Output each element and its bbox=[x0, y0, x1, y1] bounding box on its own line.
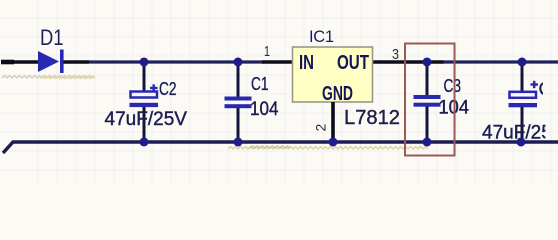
pin 1 of IC1 bbox=[262, 60, 293, 64]
wire C1 bottom stub bbox=[237, 107, 240, 142]
node junction GND pin bottom bbox=[329, 138, 338, 147]
wire input net at far left bbox=[1, 60, 14, 65]
wire C4 top stub bbox=[521, 62, 524, 92]
wire C3 bottom stub bbox=[426, 106, 429, 142]
wire / pin black segment from left edge to diode anode bbox=[2, 60, 39, 64]
svg-text:47uF/25V: 47uF/25V bbox=[105, 109, 188, 130]
node junction C2 top bbox=[140, 58, 149, 67]
value 47uF/25V (clipped at right edge) bbox=[482, 123, 558, 144]
wire top rail net from IC1 pin 3 to right edge bbox=[443, 60, 558, 63]
ERC squiggle under bottom rail bbox=[228, 146, 428, 149]
highlight box around C3 bbox=[405, 44, 455, 156]
node junction C4 top bbox=[518, 58, 527, 67]
capacitor C4 (polarized 47uF output) bbox=[509, 62, 539, 142]
svg-text:3: 3 bbox=[392, 46, 399, 63]
wire diode cathode pin to joint bbox=[62, 60, 89, 64]
wire C3 top stub bbox=[426, 62, 429, 96]
wire C1 top stub bbox=[237, 62, 240, 97]
regulator IC1 L7812 body bbox=[293, 47, 373, 105]
wire bottom rail (ground return, full width) bbox=[3, 142, 558, 153]
svg-text:1: 1 bbox=[264, 43, 270, 60]
svg-text:D1: D1 bbox=[40, 25, 64, 50]
svg-text:C1: C1 bbox=[251, 73, 269, 94]
svg-text:104: 104 bbox=[250, 99, 279, 120]
node junction C3 top bbox=[423, 58, 432, 67]
capacitor C2 (polarized 47uF/25V) bbox=[130, 62, 159, 142]
svg-text:2: 2 bbox=[313, 124, 329, 132]
capacitor C3 (ceramic 104) bbox=[414, 62, 441, 142]
svg-text:GND: GND bbox=[322, 82, 353, 105]
diode D1 bbox=[38, 50, 64, 74]
pin 3 of IC1 bbox=[372, 60, 444, 64]
svg-text:C3: C3 bbox=[444, 75, 462, 96]
svg-text:IC1: IC1 bbox=[309, 28, 334, 46]
node junction C1 top bbox=[234, 58, 243, 67]
designator C4 (clipped at screenshot edge) bbox=[539, 78, 558, 99]
wire C4 bottom stub bbox=[521, 106, 524, 142]
wire C2 top stub bbox=[143, 62, 146, 92]
node junction C2 bottom bbox=[140, 138, 149, 147]
wire C2 bottom stub bbox=[143, 106, 146, 142]
node junction C4 bottom bbox=[517, 138, 526, 147]
wire top rail net from diode to IC1 pin 1 bbox=[89, 60, 263, 63]
svg-text:IN: IN bbox=[299, 51, 314, 74]
node junction C3 bottom bbox=[423, 138, 432, 147]
wire IC1 GND pin 2 down to bottom rail bbox=[331, 102, 335, 142]
node junction C1 bottom bbox=[234, 138, 243, 147]
svg-text:OUT: OUT bbox=[337, 51, 369, 74]
ERC squiggle under top-left wire bbox=[2, 76, 95, 79]
svg-text:L7812: L7812 bbox=[344, 107, 400, 129]
svg-text:C2: C2 bbox=[159, 78, 177, 99]
capacitor C1 (ceramic 104) bbox=[225, 62, 252, 142]
